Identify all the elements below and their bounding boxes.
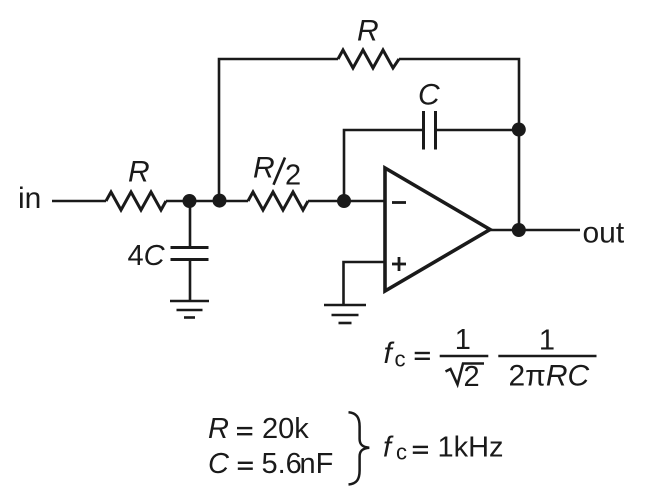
svg-text:R: R	[357, 15, 379, 48]
svg-text:1: 1	[455, 324, 471, 356]
svg-text:2: 2	[285, 160, 301, 192]
svg-text:20: 20	[262, 413, 294, 445]
svg-text:f: f	[384, 337, 395, 370]
svg-text:in: in	[18, 182, 41, 215]
svg-text:kHz: kHz	[454, 431, 504, 463]
svg-text:5.6: 5.6	[262, 448, 302, 480]
svg-text:2: 2	[464, 361, 480, 393]
svg-text:4C: 4C	[128, 240, 166, 272]
svg-text:out: out	[583, 217, 625, 250]
svg-text:R: R	[208, 413, 229, 445]
svg-text:c: c	[396, 439, 407, 464]
svg-text:nF: nF	[300, 448, 334, 480]
svg-text:C: C	[418, 78, 440, 111]
svg-text:R: R	[128, 156, 150, 189]
svg-text:c: c	[395, 346, 406, 371]
svg-text:C: C	[208, 448, 230, 480]
svg-text:2πRC: 2πRC	[509, 360, 590, 393]
svg-text:k: k	[294, 413, 309, 445]
svg-text:f: f	[383, 431, 394, 463]
svg-text:1: 1	[539, 325, 555, 357]
svg-text:1: 1	[438, 431, 454, 463]
svg-text:R: R	[253, 152, 275, 185]
